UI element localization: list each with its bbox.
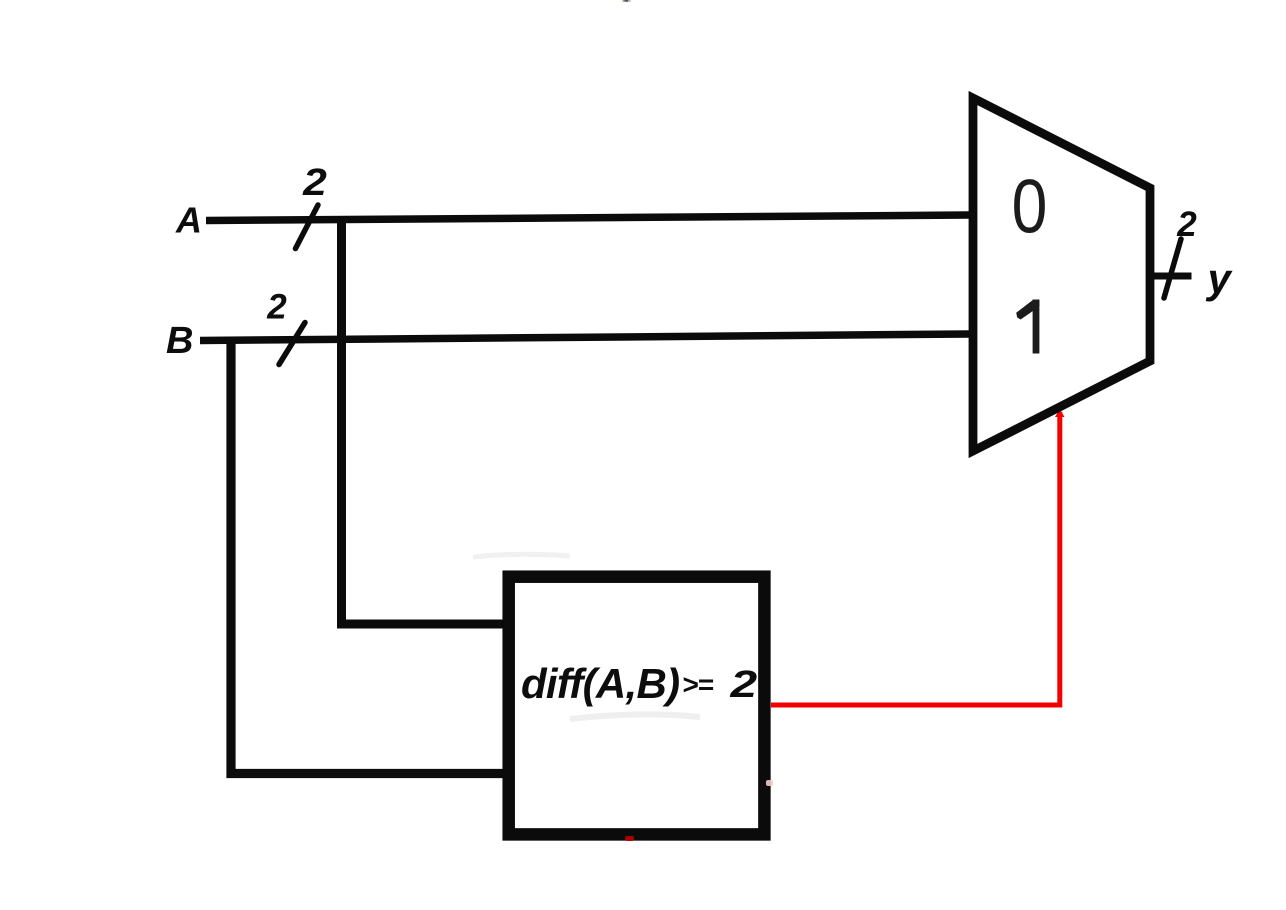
red arrow tip at mux select input xyxy=(1055,409,1065,417)
mux input label 1 xyxy=(1016,300,1039,354)
svg-text:>=: >= xyxy=(682,669,713,700)
comparator box xyxy=(509,577,765,835)
wire A branch down to comparator xyxy=(342,216,511,624)
svg-text:2: 2 xyxy=(1176,205,1197,244)
wire B horizontal to mux xyxy=(200,334,969,341)
svg-text:y: y xyxy=(1206,255,1234,302)
bus slash on B xyxy=(279,323,305,365)
svg-text:B: B xyxy=(166,320,193,362)
wire A horizontal to mux xyxy=(206,215,969,221)
mux U1 trapezoid body xyxy=(973,98,1150,451)
svg-text:2: 2 xyxy=(302,160,327,203)
mux input label 0 xyxy=(1012,163,1048,249)
top-edge smudge artifact xyxy=(623,0,631,2)
red dot artifact on box bottom border xyxy=(625,836,634,841)
wire B branch down to comparator xyxy=(231,340,510,774)
faint erased mark above comparator box xyxy=(473,554,570,557)
red select wire from comparator to mux xyxy=(771,412,1060,705)
output wire y stub xyxy=(1154,273,1192,280)
svg-text:2: 2 xyxy=(266,288,287,327)
svg-text:diff(A,B): diff(A,B) xyxy=(521,660,679,707)
comparator label diff(A,B)>= 2 xyxy=(521,660,757,707)
pink mark artifact on box right border xyxy=(766,780,773,786)
bus slash on output xyxy=(1164,239,1181,298)
bus width label 2 on A xyxy=(302,160,327,203)
svg-text:2: 2 xyxy=(729,664,757,706)
bus slash on A xyxy=(296,205,319,249)
faint erased mark inside comparator box xyxy=(570,714,700,719)
svg-text:A: A xyxy=(175,200,202,241)
svg-text:0: 0 xyxy=(1012,163,1048,249)
